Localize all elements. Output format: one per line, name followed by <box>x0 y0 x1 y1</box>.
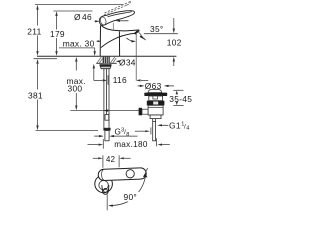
aerator face (dark band at 35°) <box>135 30 139 34</box>
top view: spout pointing down <box>102 185 109 194</box>
svg-text:max.180: max.180 <box>114 140 148 149</box>
dimension max.180 <box>88 138 170 148</box>
small arrow at body left edge <box>97 40 102 42</box>
rod port on waste <box>139 108 142 116</box>
label 90° <box>122 192 141 202</box>
pop-up waste: flange rim <box>144 93 167 96</box>
top view: lever pill <box>98 168 146 181</box>
tick at lever tip <box>145 168 148 173</box>
deck cross-section bottom line <box>96 62 117 64</box>
top view: body circle <box>95 175 113 193</box>
dimension line 211 <box>36 5 38 56</box>
dimension 179 top extension tick <box>54 10 93 12</box>
lever inner edge line <box>108 12 132 17</box>
deck / mounting surface line <box>37 55 176 57</box>
handle cap inner face <box>100 16 107 25</box>
right arrow+tick at tailpipe (row y=131) <box>135 127 151 134</box>
dimension 381 (deck down to hose end) <box>34 59 58 131</box>
max.30 lower arrow (points up at deck bottom), corner to 116 line <box>93 64 95 81</box>
threaded shank through deck <box>103 57 110 64</box>
top view: dimension 42 <box>93 155 131 168</box>
svg-text:35°: 35° <box>150 24 164 34</box>
horizontal rod line to waste port / max300 bottom tick <box>70 110 141 112</box>
svg-text:381: 381 <box>28 90 43 100</box>
waste clamp collar <box>147 101 165 106</box>
supply hoses <box>104 69 109 129</box>
waste outlet nut <box>150 115 161 119</box>
svg-text:4: 4 <box>186 126 189 132</box>
dimension line 179 <box>55 11 57 56</box>
hose end nut <box>103 128 110 131</box>
svg-text:G1: G1 <box>169 120 181 130</box>
G3/8 squeeze arrows at nipple <box>94 135 137 137</box>
deck hatch right block <box>110 57 116 63</box>
dimension 211 top extension tick <box>35 4 124 6</box>
svg-text:Ø34: Ø34 <box>119 57 136 67</box>
dimension 102 (outside arrows) <box>173 18 175 66</box>
waste neck with plug stem <box>149 96 163 101</box>
svg-text:max. 30: max. 30 <box>63 38 95 48</box>
faucet side view: lever handle with cap <box>99 11 134 26</box>
svg-text:116: 116 <box>113 75 127 85</box>
washer under deck <box>100 64 112 66</box>
phantom raised lever (dashed) <box>104 1 131 15</box>
mounting nut <box>100 66 111 68</box>
dimension line 116 <box>94 33 149 85</box>
faucet side view: dome base sweeping into spout top <box>101 25 139 31</box>
dimension 35-45 <box>173 90 183 105</box>
svg-text:8: 8 <box>126 132 129 138</box>
faucet side view: body edges <box>100 25 119 56</box>
deck hatch left block <box>97 57 102 63</box>
spout centerline extension <box>106 195 108 211</box>
pop-up rod coupler <box>105 115 109 121</box>
bottom tick line to hose <box>36 130 99 132</box>
svg-text:42: 42 <box>106 155 115 164</box>
cartridge centerline <box>112 23 114 31</box>
pop-up waste: plug dome <box>148 90 162 93</box>
svg-text:102: 102 <box>167 37 182 47</box>
underline of 35° continuing as 102 top tick <box>144 33 178 35</box>
svg-text:211: 211 <box>27 27 41 37</box>
35° axis through aerator with flow arrowhead <box>136 30 141 35</box>
svg-text:90°: 90° <box>124 192 138 202</box>
spout underside sweep <box>101 33 136 47</box>
waste body <box>148 105 163 115</box>
90° swing arc with arrows <box>112 176 146 206</box>
svg-text:Ø46: Ø46 <box>74 12 92 22</box>
svg-text:35-45: 35-45 <box>169 94 192 104</box>
svg-text:179: 179 <box>50 29 65 39</box>
waste tailpipe <box>152 119 156 141</box>
dimension max. 300 (vertical, deck to hose end) <box>75 57 77 111</box>
35° arc arrow <box>127 38 134 41</box>
svg-text:300: 300 <box>68 84 83 94</box>
G3/8 nipple <box>105 131 109 141</box>
